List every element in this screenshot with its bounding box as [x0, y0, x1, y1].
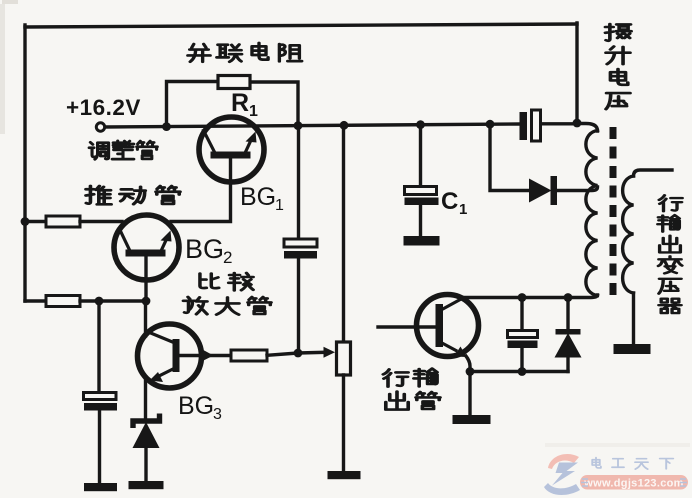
- capacitor (feedback, electrolytic): [284, 239, 317, 259]
- wire: potentiometer bottom lead: [342, 375, 345, 471]
- wire: BG4 emitter ground lead: [468, 372, 471, 416]
- wire: resistor to BG3 collector node: [80, 299, 146, 302]
- wire: divider top lead from bus: [342, 125, 345, 342]
- node: junction bottom rail / capacitor: [518, 367, 527, 376]
- wire: left border to BG2 resistor: [25, 220, 46, 223]
- potentiometer (sampling adjust): [337, 342, 351, 375]
- label 推动管 (driver tube): [86, 186, 180, 204]
- wire: zener to ground: [144, 448, 147, 481]
- ground (below BG4): [453, 415, 491, 424]
- wire: snubber capacitor top lead: [520, 298, 523, 331]
- wire: C1 bottom lead: [419, 205, 422, 236]
- ground (below zener): [129, 481, 164, 489]
- node: junction at R1 loop right / C3 branch: [294, 121, 303, 130]
- label 行输出管 (line output tube): [383, 369, 440, 410]
- transistor BG3 (比较放大管 comparison amplifier): [138, 324, 202, 388]
- wire: capacitor top lead: [97, 301, 100, 392]
- wire: bottom rail: [470, 370, 568, 373]
- svg-text:C: C: [441, 188, 458, 215]
- ground (below C1): [404, 236, 440, 246]
- wire: C3 bottom lead to wiper wire: [297, 259, 300, 354]
- capacitor C1: [405, 187, 439, 206]
- wire: BG4 base stub: [378, 325, 436, 328]
- wire: resistor to BG2: [80, 220, 122, 223]
- svg-text:BG: BG: [240, 183, 276, 211]
- svg-text:BG: BG: [178, 392, 214, 420]
- svg-text:BG: BG: [185, 234, 224, 264]
- diode (damper 2): [555, 329, 582, 358]
- wire: C1 top lead: [419, 125, 422, 186]
- wire: top border bus: [25, 24, 577, 27]
- wire: BG4 collector bus to primary bottom: [461, 295, 598, 298]
- transistor BG2 (推动管 driver): [114, 215, 179, 280]
- resistor R1: [218, 76, 250, 89]
- capacitor (coupling, on bus): [520, 110, 541, 141]
- wire: BG3 base out with arrow tap: [180, 349, 231, 363]
- label BG3: [178, 392, 222, 423]
- wire: BG4 emitter to bottom rail: [466, 356, 470, 372]
- wire: R1 loop left leg: [167, 82, 219, 127]
- wire: right feed from top border down to main bus: [575, 23, 578, 123]
- transformer core (dashed): [610, 127, 617, 299]
- node: junction at sampling divider branch: [340, 121, 349, 130]
- wire: main supply bus (terminal to coupling capacitor): [105, 124, 520, 127]
- watermark logo 电工天下: [544, 443, 690, 495]
- node: junction top rail / snubber capacitor: [518, 293, 527, 302]
- wire: secondary bottom to ground: [632, 293, 635, 344]
- wire: left border: [23, 25, 26, 301]
- capacitor (left filter, electrolytic): [84, 393, 118, 411]
- wire: capacitor bottom lead: [98, 411, 101, 484]
- transformer secondary winding: [623, 170, 672, 293]
- svg-text:R: R: [231, 89, 249, 117]
- label BG2: [185, 234, 232, 267]
- node: junction BG2 base / BG3 collector: [142, 297, 151, 306]
- diode (zener, BG3 emitter reference): [133, 414, 160, 449]
- capacitor (snubber): [508, 331, 538, 349]
- node: junction left border / BG2 base branch: [21, 217, 30, 226]
- wire: bus from coupling capacitor to transformer: [541, 122, 577, 125]
- transformer primary winding: [577, 124, 598, 296]
- node: junction top rail / damper diode 2: [564, 293, 573, 302]
- wire: diode branch down from bus: [490, 124, 529, 190]
- label +16.2V: [66, 95, 141, 120]
- svg-text:1: 1: [249, 103, 258, 120]
- label C1: [441, 188, 467, 218]
- node: junction emitter / bottom rail: [466, 367, 475, 376]
- node: junction at C1 branch: [416, 120, 425, 129]
- svg-text:1: 1: [275, 197, 284, 214]
- svg-text:1: 1: [459, 201, 467, 218]
- wire: BG3 emitter lead down to zener: [144, 378, 147, 421]
- ground (below potentiometer): [328, 471, 361, 479]
- node: junction at transformer top: [573, 119, 582, 128]
- wire: diode cathode to transformer tap: [557, 187, 598, 191]
- transistor BG1 (调整管 regulator): [199, 117, 264, 182]
- wire: C3 top lead from bus: [297, 126, 300, 239]
- svg-text:2: 2: [223, 248, 232, 267]
- wire: R1 loop right leg: [250, 82, 298, 126]
- label 放大管 (amplifier tube): [183, 297, 271, 315]
- resistor (BG2 collector feed): [46, 216, 80, 227]
- label 摄升电压 (boosted voltage): [605, 24, 631, 109]
- wire: BG2 base stem down to comparison node: [144, 257, 147, 302]
- node: +16.2V input terminal: [96, 123, 104, 131]
- node: junction at damper diode branch: [486, 120, 495, 129]
- node: junction filter capacitor branch: [95, 297, 104, 306]
- label BG1: [240, 183, 284, 214]
- wire: damper diode 2 bottom lead: [566, 358, 569, 372]
- wire: damper diode 2 top lead: [566, 298, 569, 330]
- label 并联电阻 (parallel resistor): [188, 43, 302, 62]
- resistor (BG3 base series): [231, 350, 267, 361]
- wire: resistor to potentiometer wiper arrow: [267, 347, 335, 358]
- wire: BG1 base stem down and left to BG2: [171, 159, 231, 222]
- label 比较 (comparison): [200, 273, 253, 290]
- label 行输出变压器 (line output transformer): [658, 195, 682, 313]
- label 调整管 (regulator tube): [89, 141, 157, 159]
- node: junction at R1 loop left: [162, 122, 171, 131]
- svg-text:+16.2V: +16.2V: [66, 95, 141, 120]
- wire: left border bottom corner to resistor: [25, 299, 46, 302]
- label R1: [231, 89, 258, 120]
- diode (damper, to transformer tap): [529, 176, 557, 205]
- ground (below left capacitor): [84, 483, 117, 491]
- svg-text:www.dgjs123.com: www.dgjs123.com: [583, 478, 683, 490]
- wire: snubber capacitor bottom lead: [520, 348, 523, 372]
- node: junction C3 bottom / wiper wire: [294, 349, 303, 358]
- resistor (comparison divider): [46, 296, 80, 307]
- wire: BG3 collector lead from comparison node: [144, 301, 147, 336]
- ground (below secondary): [614, 344, 651, 354]
- svg-text:3: 3: [213, 406, 222, 423]
- transistor BG4 (行输出管 line output tube): [417, 295, 479, 358]
